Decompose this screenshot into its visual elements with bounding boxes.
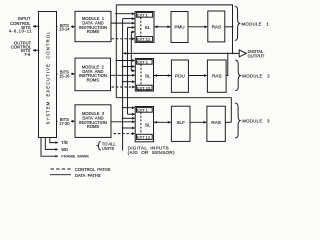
wire SLF to RAS3 xyxy=(190,121,206,123)
svg-text:15-16: 15-16 xyxy=(59,73,70,78)
system executive control box U-EXEC xyxy=(39,12,57,138)
bus vertical V2 (digital input riser) xyxy=(122,19,124,151)
wire into SL2 from V1 xyxy=(116,60,134,62)
dashed continuation inside SL3 xyxy=(140,112,142,134)
svg-text:(A/D OR SENSOR): (A/D OR SENSOR) xyxy=(128,150,175,155)
svg-text:DATA PATHS: DATA PATHS xyxy=(75,173,101,178)
svg-text:EXT 1: EXT 1 xyxy=(137,13,148,18)
wire RAS3 output to row3 riser xyxy=(225,121,231,123)
svg-text:MODULE 1: MODULE 1 xyxy=(242,22,270,27)
wire exec to T/B xyxy=(41,138,56,157)
input control bits label xyxy=(9,16,32,33)
dashed control wire into SL3 ext13 xyxy=(114,133,135,135)
ext 13 cell of SL1 xyxy=(136,37,152,42)
svg-text:T/B: T/B xyxy=(61,140,68,145)
row1 feedback top wire xyxy=(116,5,232,54)
svg-text:EXT 1: EXT 1 xyxy=(137,60,148,65)
ext 1 cell of SL2 xyxy=(137,60,153,65)
brace to all units xyxy=(98,141,101,150)
svg-text:CONTROL PATHS: CONTROL PATHS xyxy=(75,167,111,172)
svg-text:13-14: 13-14 xyxy=(59,27,70,32)
svg-text:EXT 13: EXT 13 xyxy=(137,37,150,42)
arrow to T/B label xyxy=(55,141,58,144)
ext 1 cell of SL1 xyxy=(136,13,152,18)
SL3 box xyxy=(135,107,153,142)
svg-text:EXT 13: EXT 13 xyxy=(137,135,150,140)
brace module 1 xyxy=(235,6,240,40)
digital output buffer triangle xyxy=(239,50,246,57)
dashed continuation inside SL2 xyxy=(140,64,142,85)
wire SL3 to SLF double arrow xyxy=(154,121,172,123)
wire V3 corner into SL1 xyxy=(128,26,135,28)
wire bits 17-20 exec to ROM3 xyxy=(57,120,75,122)
svg-text:ROMS: ROMS xyxy=(87,29,100,34)
digital output bus wire xyxy=(123,52,239,54)
wire bits 15-16 exec to ROM2 xyxy=(57,73,75,75)
dashed control wire into SL2 ext13 xyxy=(112,86,135,88)
svg-text:EXT 1: EXT 1 xyxy=(137,108,148,113)
legend dashed control paths xyxy=(51,168,72,170)
svg-text:PDU: PDU xyxy=(175,73,185,78)
wire ROM1 output into SL1 xyxy=(111,22,134,24)
wire RAS2 output up to digital bus xyxy=(226,53,228,75)
svg-text:7-9: 7-9 xyxy=(24,52,31,57)
SL2 box xyxy=(135,59,153,92)
ext 1 cell of SL3 xyxy=(137,108,153,113)
wire exec to FRAME MARK xyxy=(50,138,57,143)
SLF box U-SLF xyxy=(171,106,190,141)
wire V4 corner into SL1 xyxy=(131,31,134,33)
svg-text:17-20: 17-20 xyxy=(59,121,70,126)
svg-text:ROMS: ROMS xyxy=(87,78,100,83)
svg-text:SL: SL xyxy=(145,122,151,127)
arrow to FRAME MARK label xyxy=(55,155,58,158)
ext 13 cell of SL3 xyxy=(137,134,153,139)
svg-text:MODULE 3: MODULE 3 xyxy=(242,119,270,124)
RAS2 box xyxy=(207,60,226,92)
junction dots xyxy=(115,13,233,129)
arrow to WD label xyxy=(55,148,58,151)
wire into SL2 from V2 xyxy=(123,66,135,68)
svg-text:SL: SL xyxy=(145,25,151,30)
wire V2 corner into SL1 xyxy=(123,18,135,20)
RAS1 box xyxy=(208,11,225,42)
wire RAS1 output to feedback riser xyxy=(225,26,233,28)
wire PMU to RAS1 xyxy=(188,26,207,28)
svg-text:INPUT: INPUT xyxy=(18,16,31,21)
svg-text:RAS: RAS xyxy=(211,120,220,125)
wire into SL3 from V2 xyxy=(123,107,135,109)
svg-text:ROMS: ROMS xyxy=(87,124,100,129)
wire ROM2 output into SL2 xyxy=(111,74,135,76)
PDU box U-PDU xyxy=(171,60,188,92)
wire into SL2 from V2 lower xyxy=(123,81,135,83)
bus vertical V4 xyxy=(130,32,132,71)
wire into SL3 from V2 mid xyxy=(123,117,135,119)
wire bits 13-14 exec to ROM1 xyxy=(57,26,75,28)
PMU box U-PMU xyxy=(171,12,188,43)
arrow output control to executive xyxy=(33,49,38,51)
RAS3 box xyxy=(207,106,225,141)
svg-text:EXT 13: EXT 13 xyxy=(137,85,150,90)
wire V4 corner into SL2 xyxy=(131,70,134,72)
wire SL2 to PDU double arrow xyxy=(154,75,172,77)
svg-text:WD: WD xyxy=(61,147,68,152)
output control bits label xyxy=(11,41,32,57)
legend solid data paths xyxy=(50,174,71,176)
svg-text:4-6,10-11: 4-6,10-11 xyxy=(9,29,32,34)
ext 13 cell of SL2 xyxy=(137,85,153,90)
svg-text:MODULE 2: MODULE 2 xyxy=(242,74,270,79)
svg-text:RAS: RAS xyxy=(212,25,221,30)
svg-text:PMU: PMU xyxy=(174,25,184,30)
brace module 3 xyxy=(235,103,240,138)
dashed control wire into SL1 ext13 xyxy=(112,38,135,40)
wire exec to WD xyxy=(45,138,56,150)
bus vertical V1 xyxy=(115,5,117,98)
brace module 2 xyxy=(235,60,240,91)
wire into SL1 ext1 xyxy=(116,13,134,15)
wire PDU to RAS2 xyxy=(188,75,206,77)
arrow input control to executive xyxy=(33,25,38,27)
dashed continuation inside SL1 xyxy=(140,17,142,36)
module 3 data and instruction ROMs box xyxy=(75,105,111,138)
svg-text:SYSTEM EXECUTIVE CONTROL: SYSTEM EXECUTIVE CONTROL xyxy=(46,31,51,125)
svg-text:SL: SL xyxy=(145,73,151,78)
row3 feedback top wire xyxy=(116,98,231,123)
bus vertical V3 xyxy=(127,27,129,114)
svg-text:FRAME MARK: FRAME MARK xyxy=(61,154,89,159)
wire V3 corner into SL3 xyxy=(128,113,135,115)
module 1 data and instruction ROMs box xyxy=(75,11,111,41)
svg-text:SLF: SLF xyxy=(176,120,185,125)
wire ROM3 output into SL3 xyxy=(111,121,134,123)
wire into SL3 from V2 lower xyxy=(123,127,135,129)
svg-text:OUTPUT: OUTPUT xyxy=(248,53,265,58)
wire SL1 to PMU double arrow xyxy=(154,26,171,28)
svg-text:RAS: RAS xyxy=(212,73,221,78)
SL1 box xyxy=(135,12,154,43)
svg-text:UNITS: UNITS xyxy=(102,146,115,151)
module 2 data and instruction ROMs box xyxy=(75,58,111,91)
